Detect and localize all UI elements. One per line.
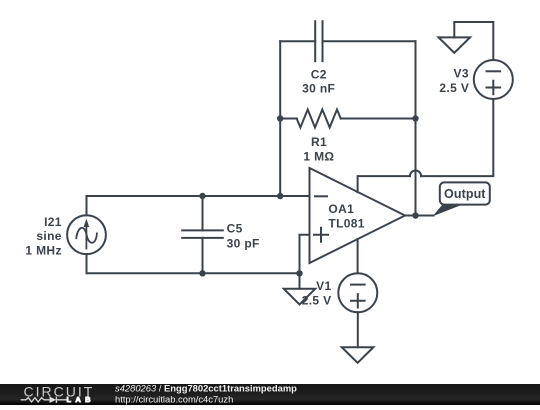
- svg-text:C2: C2: [311, 68, 327, 82]
- resistor R1 right lead: [341, 118, 416, 120]
- logo resistor-diode line: [21, 397, 67, 403]
- voltage source V3 minus mark: [487, 70, 501, 72]
- current source I21 arrow shaft: [85, 227, 87, 249]
- svg-text:C5: C5: [227, 222, 243, 236]
- output flag box: [440, 182, 490, 204]
- svg-text:2.5 V: 2.5 V: [439, 81, 469, 95]
- capacitor C5 top plate: [182, 229, 223, 231]
- svg-text:V1: V1: [316, 279, 331, 293]
- op-amp OA1 plus input mark: [314, 228, 328, 242]
- wire V1 bottom to ground: [357, 312, 359, 347]
- op-amp OA1 minus input mark: [315, 195, 327, 197]
- voltage source V1 minus mark: [351, 284, 365, 286]
- svg-text:I21: I21: [44, 215, 62, 229]
- voltage source V3 plus mark: [487, 81, 501, 94]
- svg-text:sine: sine: [36, 229, 61, 243]
- svg-text:1 MΩ: 1 MΩ: [303, 149, 334, 163]
- svg-text:s4280263 / Engg7802cct1transim: s4280263 / Engg7802cct1transimpedamp: [115, 383, 297, 394]
- wire bottom net: [87, 272, 300, 274]
- svg-text:30 pF: 30 pF: [227, 236, 260, 250]
- wire C2 left lead: [280, 40, 315, 42]
- capacitor C2 left plate: [314, 21, 316, 61]
- wire I21 bottom stub: [86, 254, 88, 273]
- output flag pointer: [433, 205, 463, 217]
- ground G2: [284, 289, 316, 305]
- wire hop over feedback vertical: [410, 171, 421, 177]
- svg-text:V3: V3: [454, 67, 469, 81]
- wire op-amp V- pin to V1: [357, 239, 359, 273]
- svg-text:30 nF: 30 nF: [302, 81, 335, 95]
- svg-text:1 MHz: 1 MHz: [25, 243, 61, 257]
- logo diode triangle: [50, 397, 57, 403]
- ground G3: [342, 347, 374, 363]
- svg-text:OA1: OA1: [328, 202, 354, 216]
- current source I21 circle: [67, 215, 106, 254]
- svg-text:R1: R1: [311, 135, 327, 149]
- svg-text:TL081: TL081: [328, 217, 364, 231]
- node dot feedback/input: [277, 193, 283, 199]
- node dot C5 bottom: [199, 270, 205, 276]
- svg-text:Output: Output: [444, 187, 486, 201]
- voltage source V1 circle: [338, 273, 377, 312]
- current source I21 arrow head: [84, 219, 90, 227]
- wire V3 top to ground: [454, 22, 493, 60]
- svg-text:http://circuitlab.com/c4c7uzh: http://circuitlab.com/c4c7uzh: [115, 393, 233, 404]
- wire ground stub G2: [299, 273, 301, 288]
- ground G1: [439, 37, 471, 53]
- wire right feedback vertical: [415, 41, 417, 215]
- wire feedback left vertical: [279, 41, 281, 196]
- capacitor C5 bottom plate: [182, 237, 223, 239]
- resistor R1 left lead: [280, 118, 297, 120]
- wire output: [405, 215, 434, 217]
- resistor R1 zigzag: [297, 110, 341, 128]
- node dot R1 right: [412, 115, 418, 121]
- node dot R1 left: [277, 115, 283, 121]
- op-amp OA1 triangle: [310, 168, 406, 263]
- voltage source V3 circle: [474, 60, 513, 99]
- wire top input net: [87, 195, 310, 197]
- wire V+ power rail from V3: [358, 99, 494, 192]
- voltage source V1 plus mark: [351, 294, 365, 307]
- node dot plus input/ground: [296, 270, 302, 276]
- svg-text:LAB: LAB: [67, 395, 95, 404]
- wire C2 right lead: [323, 40, 416, 42]
- capacitor C5 top stub: [202, 196, 204, 230]
- node dot C5 top: [199, 193, 205, 199]
- capacitor C5 bottom stub: [202, 238, 204, 273]
- wire I21 top stub: [86, 196, 88, 215]
- node dot output: [412, 212, 418, 218]
- capacitor C2 right plate: [322, 21, 324, 61]
- svg-text:2.5 V: 2.5 V: [302, 293, 332, 307]
- wire plus input: [300, 235, 310, 274]
- footer bar: [0, 384, 540, 405]
- current source I21 sine glyph: [76, 228, 97, 243]
